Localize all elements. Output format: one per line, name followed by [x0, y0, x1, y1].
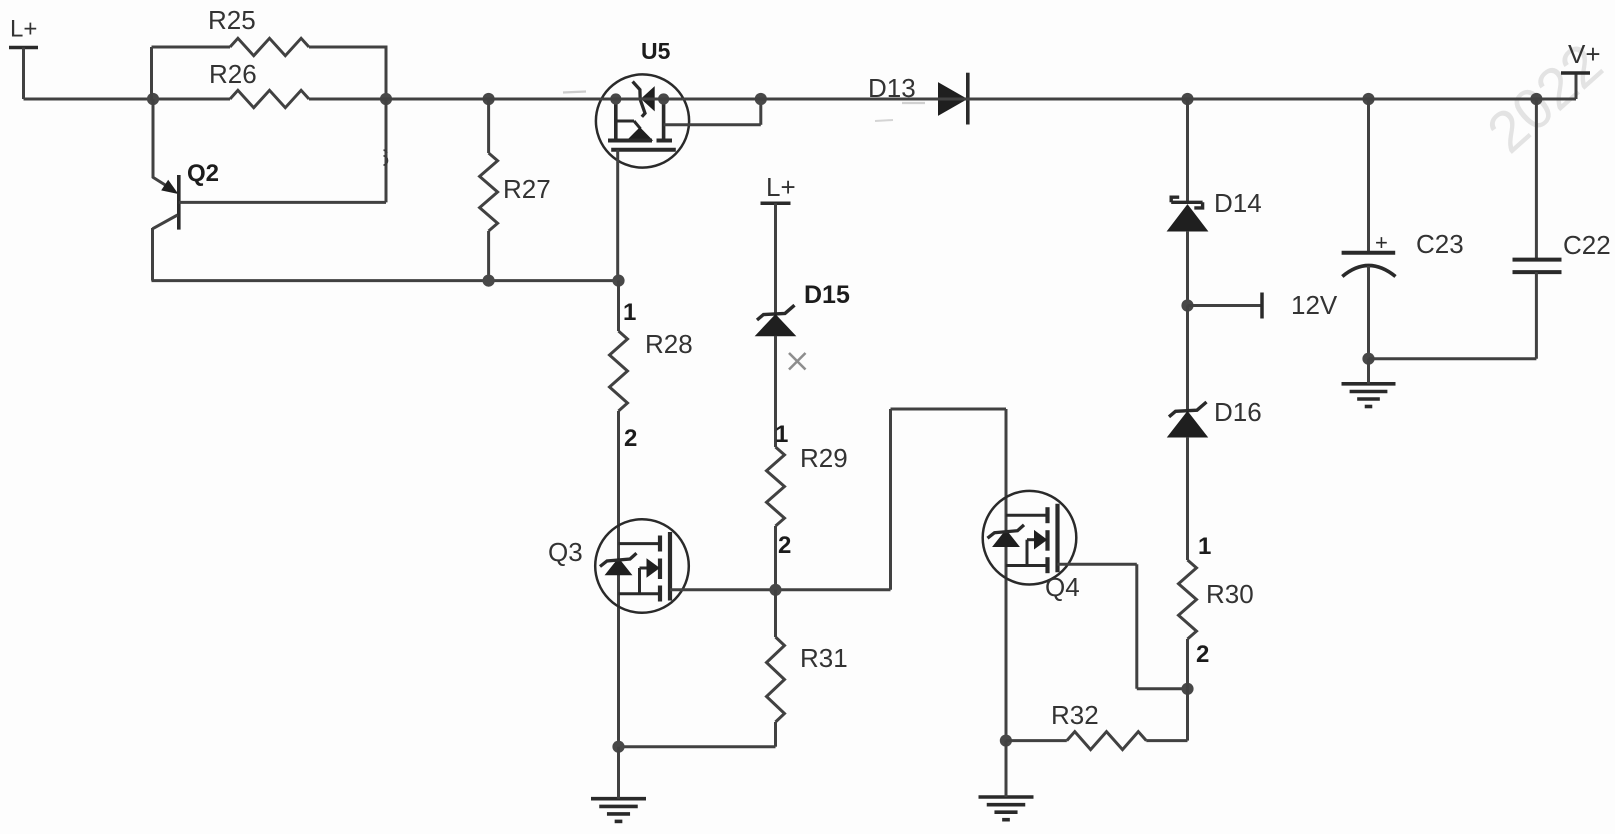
- node B: [380, 93, 392, 105]
- svg-text:2: 2: [1196, 641, 1209, 668]
- wire: [309, 98, 1576, 101]
- node R27 bottom: [483, 275, 495, 287]
- transistor Q2: [153, 99, 387, 281]
- svg-text:R31: R31: [800, 643, 848, 673]
- wire: [1186, 231, 1189, 306]
- svg-text:L+: L+: [766, 172, 796, 202]
- ground: [979, 797, 1034, 820]
- resistor R25: [208, 5, 309, 56]
- svg-text:R30: R30: [1206, 579, 1254, 609]
- wire: [1367, 99, 1370, 253]
- node U5 drain: [755, 93, 767, 105]
- svg-text:2: 2: [778, 532, 791, 559]
- wire: [774, 203, 777, 313]
- node Q3 source: [612, 741, 624, 753]
- svg-text:R32: R32: [1051, 700, 1099, 730]
- wire: [889, 409, 892, 590]
- terminal 12V: [1188, 290, 1338, 320]
- terminal L+ (top left): [9, 16, 38, 100]
- resistor R30: [1179, 560, 1254, 639]
- svg-text:1: 1: [775, 421, 788, 448]
- node R27 top: [483, 93, 495, 105]
- svg-text:Q2: Q2: [187, 160, 219, 187]
- wire: [891, 408, 1007, 411]
- pin 2 of R29: [778, 532, 791, 559]
- svg-text:+: +: [1375, 230, 1388, 255]
- wire: [1186, 639, 1189, 689]
- wire: [309, 46, 388, 100]
- node C23 top: [1362, 93, 1374, 105]
- wire: [1137, 687, 1188, 690]
- node R30 bottom: [1181, 683, 1193, 695]
- svg-text:D14: D14: [1214, 188, 1262, 218]
- wire: [1135, 564, 1138, 689]
- svg-text:2: 2: [624, 425, 637, 452]
- wire: [1186, 437, 1189, 560]
- svg-text:R26: R26: [209, 59, 257, 89]
- svg-text:Q4: Q4: [1045, 572, 1080, 602]
- wire: [1058, 563, 1137, 566]
- wire: [1005, 741, 1008, 797]
- mark x: [789, 353, 806, 370]
- wire: [664, 99, 761, 125]
- svg-text:C23: C23: [1416, 229, 1464, 259]
- node U5 gate bottom: [612, 275, 624, 287]
- wire: [1186, 99, 1189, 202]
- node Q3 gate net: [769, 584, 781, 596]
- wire: [487, 231, 490, 281]
- wire: [1369, 357, 1537, 360]
- wire: [774, 722, 777, 747]
- svg-text:R27: R27: [503, 174, 551, 204]
- mosfet U5: [596, 38, 689, 168]
- wire: [1186, 306, 1189, 411]
- zener diode D14: [1168, 188, 1262, 231]
- pin 2 of R28: [624, 425, 637, 452]
- node C22 top: [1530, 93, 1542, 105]
- resistor R32: [1006, 700, 1188, 750]
- resistor R29: [767, 443, 848, 526]
- wire: [1367, 266, 1370, 359]
- wire: [1535, 99, 1538, 260]
- svg-text:D16: D16: [1214, 397, 1262, 427]
- node A: [147, 93, 159, 105]
- resistor R26: [209, 59, 309, 108]
- svg-text:Q3: Q3: [548, 537, 583, 567]
- svg-text:D15: D15: [804, 281, 850, 309]
- wire: [774, 526, 777, 590]
- node C23 bottom: [1362, 353, 1374, 365]
- zener diode D16: [1168, 397, 1262, 437]
- svg-text:R28: R28: [645, 329, 693, 359]
- wire: [774, 336, 777, 447]
- svg-text:1: 1: [623, 299, 636, 326]
- wire: [617, 411, 620, 747]
- mosfet Q3: [548, 519, 689, 613]
- wire: [774, 590, 777, 637]
- wire: [152, 47, 231, 101]
- wire: [617, 747, 620, 799]
- node D14 top: [1181, 93, 1193, 105]
- wire: [1367, 359, 1370, 384]
- smudge: [902, 102, 925, 104]
- svg-text:1: 1: [1198, 533, 1211, 560]
- wire: [24, 98, 231, 101]
- ground: [1342, 384, 1396, 407]
- pin 1 of R29: [775, 421, 788, 448]
- zener diode D15: [756, 281, 850, 336]
- resistor R28: [610, 329, 693, 411]
- wire: [617, 281, 620, 331]
- resistor R31: [767, 637, 848, 722]
- resistor R27: [480, 153, 551, 231]
- svg-text:V+: V+: [1568, 39, 1601, 69]
- svg-text:R25: R25: [208, 5, 256, 35]
- wire: [152, 279, 619, 282]
- watermark 2022: [1475, 31, 1615, 165]
- wire: [619, 745, 776, 748]
- label 6 (cropped): [376, 145, 389, 172]
- node Q4 source: [1000, 735, 1012, 747]
- node U5 pin1: [610, 93, 621, 104]
- wire: [1005, 409, 1008, 741]
- svg-text:U5: U5: [641, 38, 671, 64]
- wire: [616, 150, 619, 281]
- terminal L+ (middle): [761, 172, 796, 203]
- pin 1 of R28: [623, 299, 636, 326]
- svg-text:C22: C22: [1563, 230, 1611, 260]
- svg-text:12V: 12V: [1291, 290, 1338, 320]
- wire: [487, 99, 490, 153]
- ground: [591, 799, 646, 822]
- wire: [1186, 689, 1189, 741]
- svg-text:L+: L+: [10, 16, 37, 43]
- node 12V tap: [1181, 299, 1193, 311]
- svg-text:R29: R29: [800, 443, 848, 473]
- terminal V+: [1561, 39, 1601, 99]
- node U5 pin2: [658, 93, 669, 104]
- pin 1 of R30: [1198, 533, 1211, 560]
- pin 2 of R30: [1196, 641, 1209, 668]
- wire: [309, 98, 612, 101]
- mosfet Q4: [983, 491, 1080, 602]
- capacitor C22: [1513, 230, 1611, 272]
- smudge: [875, 120, 893, 121]
- wire: [1535, 272, 1538, 359]
- diode D13: [868, 73, 968, 125]
- capacitor C23: [1342, 229, 1464, 277]
- smudge: [563, 92, 586, 93]
- wire: [670, 588, 891, 591]
